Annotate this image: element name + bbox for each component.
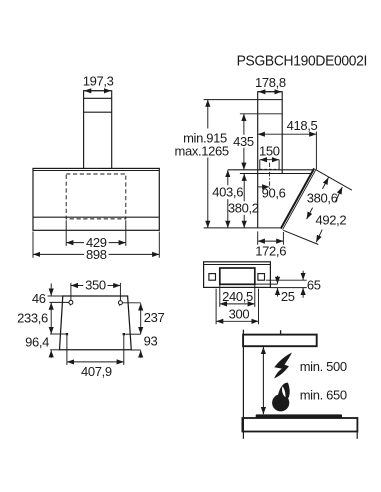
dimension line 435 upper segment: [243, 114, 245, 135]
svg-text:min. 650: min. 650: [300, 387, 347, 402]
bracket outer rectangle: [204, 262, 271, 288]
flame icon body: [272, 394, 289, 411]
arrow 25 up: [277, 288, 279, 297]
svg-text:172,6: 172,6: [255, 244, 286, 259]
dimension arrows 197,3: [84, 90, 111, 92]
chimney side section line lower with left extension: [240, 113, 282, 115]
cooktop strip: [256, 414, 342, 418]
arrow 93 up: [140, 350, 142, 357]
hood body front top band line: [34, 170, 159, 172]
small square left: [209, 274, 216, 281]
extension line 240,5 left: [219, 285, 221, 307]
svg-text:237: 237: [144, 310, 165, 325]
dimension line 403,6 lower segment: [227, 199, 229, 228]
dimension line 300: [216, 320, 258, 322]
inclined glass panel inner hairline: [282, 169, 315, 229]
svg-text:150: 150: [259, 144, 280, 159]
chimney side section line upper with left extension: [204, 99, 283, 101]
hood bottom line side view: [204, 227, 282, 229]
dimension line 380,6 upper segment: [323, 177, 329, 189]
hood bottom bar: [243, 335, 317, 347]
hood body front bottom band line: [34, 216, 159, 218]
extension line glass bottom perpendicular: [283, 230, 318, 244]
svg-text:898: 898: [86, 247, 107, 262]
upper hole left tail: [69, 304, 72, 305]
flame icon tail: [278, 383, 290, 401]
svg-text:178,8: 178,8: [255, 75, 286, 90]
arrow 25 down: [277, 276, 279, 284]
arrow 96,4 up: [50, 350, 52, 358]
bottom edge extension right: [131, 349, 140, 351]
extension line 172,6 left: [257, 231, 259, 244]
svg-text:403,6: 403,6: [212, 184, 243, 199]
cabinet right line: [356, 432, 358, 439]
svg-text:350: 350: [85, 278, 106, 293]
svg-text:492,2: 492,2: [316, 212, 347, 227]
dimension line 350 left segment: [71, 285, 83, 287]
svg-text:46: 46: [32, 291, 46, 306]
dimension line 492,2 upper segment: [336, 187, 343, 202]
extension line 898 left: [32, 232, 34, 258]
dimension line 492,2 lower segment: [316, 230, 322, 243]
svg-text:197,3: 197,3: [83, 74, 114, 89]
svg-text:PSGBCH190DE0002I: PSGBCH190DE0002I: [237, 53, 368, 70]
dimension line 407,9: [67, 361, 124, 363]
inclined glass panel: [280, 168, 317, 230]
dimension line min.915 upper segment: [207, 100, 209, 129]
extension line 429 right: [125, 220, 127, 246]
extension line 300 right: [258, 289, 260, 325]
dimension line 429 left segment: [66, 242, 84, 244]
svg-text:435: 435: [233, 134, 254, 149]
bracket top inner line: [204, 264, 271, 266]
extension line 300 left: [215, 289, 217, 325]
dimension line 435 lower segment: [243, 148, 245, 170]
upper hole right: [118, 301, 122, 305]
dimension line 429 right segment: [109, 242, 126, 244]
dimension arrows 178,8: [258, 91, 282, 93]
svg-text:max.1265: max.1265: [175, 143, 229, 158]
chimney front section line lower: [84, 111, 112, 113]
extension line 172,6 right: [282, 232, 284, 245]
duct outlet tick right: [278, 160, 280, 170]
chimney front section line upper: [84, 97, 112, 99]
lower hole extension right horizontal: [125, 333, 141, 335]
svg-text:25: 25: [281, 289, 295, 304]
svg-text:93: 93: [144, 333, 158, 348]
extension line 407,9 right: [123, 336, 125, 365]
dimension line 172,6: [258, 240, 284, 242]
extension line squares bottom right: [266, 279, 307, 281]
lightning bolt icon: [274, 353, 292, 379]
chimney front view outline: [84, 91, 112, 169]
extension line 429 left: [65, 220, 67, 246]
holes extension left: [49, 301, 68, 303]
holes extension right: [123, 302, 141, 304]
counter rectangle: [242, 418, 357, 432]
svg-text:240,5: 240,5: [222, 289, 253, 304]
chimney side view outline: [258, 92, 283, 228]
extension line 350 right: [119, 283, 121, 300]
clearance double arrow: [262, 347, 264, 414]
duct center dashed line: [269, 163, 271, 190]
dimension line 380,2 lower segment: [243, 215, 245, 228]
upper hole right tail: [119, 305, 122, 306]
extension line 240,5 right: [254, 285, 256, 307]
hood body front outline: [33, 168, 159, 230]
duct inner rectangle: [220, 268, 255, 284]
arrow 46 down: [50, 283, 52, 295]
body second line side view: [240, 173, 312, 175]
small square right: [258, 274, 265, 281]
svg-text:380,6: 380,6: [307, 191, 338, 206]
dimension line 90,6: [258, 186, 269, 188]
dimension line 240,5: [220, 303, 255, 305]
extension line 350 left: [70, 283, 72, 300]
svg-text:65: 65: [307, 278, 321, 293]
arrow 65 up: [302, 288, 304, 298]
trapezoid outline: [60, 296, 132, 350]
dashed inner rectangle front: [66, 174, 126, 219]
extension line glass top perpendicular: [317, 170, 352, 190]
duct outlet dashed bottom: [260, 168, 279, 170]
extension line 407,9 left: [66, 336, 68, 365]
svg-text:96,4: 96,4: [25, 335, 49, 350]
dimension line 237: [140, 303, 142, 334]
svg-text:380,2: 380,2: [228, 200, 259, 215]
dimension line 403,6 upper segment: [227, 170, 229, 185]
extension line 418,5 right: [315, 132, 317, 170]
svg-text:407,9: 407,9: [81, 364, 112, 379]
dimension line 380,2 upper segment: [243, 174, 245, 202]
lower hole extension left horizontal: [50, 333, 65, 335]
dimension line 350 right segment: [108, 285, 121, 287]
dimension line min.915 lower segment: [207, 158, 209, 228]
dimension line 418,5: [258, 133, 317, 135]
svg-text:90,6: 90,6: [262, 185, 286, 200]
dimension line 233,6: [50, 303, 52, 334]
dimension line 380,6 lower segment: [307, 208, 313, 220]
body top line side view: [228, 169, 316, 171]
extension line inner rect bottom right: [255, 283, 278, 285]
svg-text:300: 300: [229, 307, 250, 322]
svg-text:min. 500: min. 500: [300, 359, 347, 374]
dimension arrows 150: [260, 159, 279, 161]
extension line 898 right: [158, 232, 160, 258]
svg-text:418,5: 418,5: [287, 118, 318, 133]
upper hole left: [69, 300, 73, 304]
bottom edge extension left: [50, 349, 59, 351]
wall line: [242, 330, 244, 439]
flame icon white slit: [282, 386, 286, 397]
extension line outer rect bottom right: [271, 287, 307, 289]
dimension line 898 right segment: [109, 253, 160, 255]
lower hole right: [123, 333, 125, 335]
duct outlet tick left: [259, 160, 261, 170]
top edge left extension: [48, 295, 63, 297]
arrow 65 down: [302, 271, 304, 280]
lower hole left: [66, 333, 68, 335]
svg-text:233,6: 233,6: [17, 310, 48, 325]
dimension line 898 left segment: [33, 253, 84, 255]
chimney stub tick: [280, 330, 282, 334]
